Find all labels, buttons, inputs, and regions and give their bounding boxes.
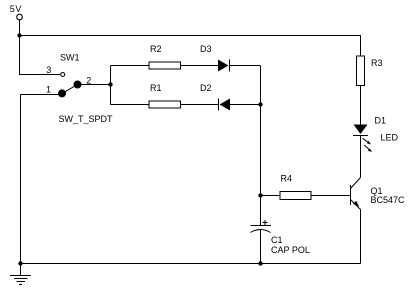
svg-text:SW1: SW1: [60, 53, 80, 63]
svg-text:BC547C: BC547C: [371, 195, 406, 205]
svg-text:1: 1: [46, 85, 51, 95]
svg-text:CAP POL: CAP POL: [271, 245, 310, 255]
svg-text:C1: C1: [271, 235, 283, 245]
svg-text:R3: R3: [371, 58, 383, 68]
svg-text:R4: R4: [281, 174, 293, 184]
svg-text:3: 3: [46, 65, 51, 75]
svg-text:2: 2: [86, 76, 91, 86]
svg-text:SW_T_SPDT: SW_T_SPDT: [59, 114, 114, 124]
svg-text:R2: R2: [150, 44, 162, 54]
svg-text:D2: D2: [200, 83, 212, 93]
svg-text:R1: R1: [150, 83, 162, 93]
svg-text:LED: LED: [381, 133, 399, 143]
svg-text:D1: D1: [375, 116, 387, 126]
svg-text:D3: D3: [200, 44, 212, 54]
svg-text:5V: 5V: [10, 4, 22, 14]
